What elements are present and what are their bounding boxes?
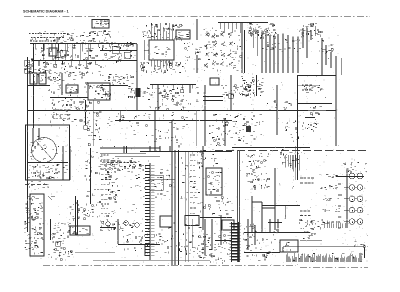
svg-text:SCHEMATIC DIAGRAM - 1: SCHEMATIC DIAGRAM - 1 <box>23 10 69 14</box>
